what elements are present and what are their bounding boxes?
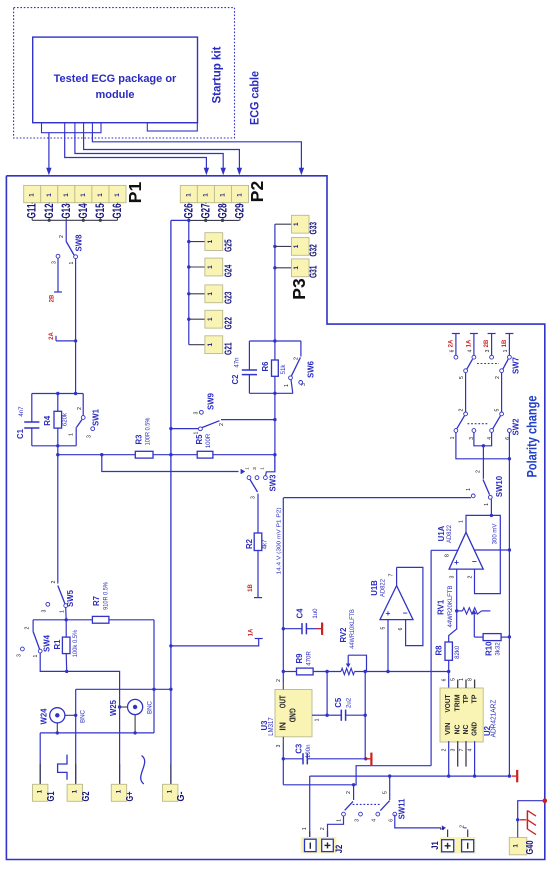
svg-text:3: 3 bbox=[42, 609, 48, 612]
svg-text:G2: G2 bbox=[81, 791, 92, 801]
svg-text:G11: G11 bbox=[25, 203, 39, 218]
wire U2 pin2 VIN bbox=[448, 741, 450, 776]
pin label G28 bbox=[222, 203, 224, 221]
wire U1B output pin7 bbox=[396, 567, 398, 585]
svg-text:82k0: 82k0 bbox=[454, 645, 461, 659]
wire row R7 bbox=[33, 619, 92, 621]
resistor R8 bbox=[449, 611, 457, 642]
pin label G15 bbox=[99, 203, 101, 221]
connector P1 bbox=[24, 185, 41, 202]
svg-text:R5: R5 bbox=[195, 434, 204, 445]
svg-text:300 mV: 300 mV bbox=[493, 524, 499, 545]
ground C4 bbox=[317, 628, 322, 630]
wire rail 671 bbox=[283, 671, 296, 673]
svg-text:4: 4 bbox=[468, 349, 474, 352]
svg-text:SW8: SW8 bbox=[75, 234, 84, 252]
svg-text:R1: R1 bbox=[53, 639, 62, 650]
svg-text:3: 3 bbox=[252, 467, 258, 470]
wire G26 column bbox=[188, 220, 190, 344]
wire rail to R8 bbox=[365, 671, 449, 673]
wire U2 pin4 GND bbox=[474, 741, 476, 776]
svg-text:3: 3 bbox=[251, 496, 257, 499]
svg-text:2A: 2A bbox=[448, 339, 454, 347]
wire J2 pin1 bbox=[309, 776, 311, 839]
svg-text:2: 2 bbox=[276, 679, 282, 682]
svg-text:G23: G23 bbox=[223, 291, 235, 304]
svg-text:1: 1 bbox=[219, 193, 226, 197]
svg-text:1: 1 bbox=[60, 610, 66, 613]
svg-text:3: 3 bbox=[355, 819, 361, 822]
svg-text:2A: 2A bbox=[49, 331, 55, 339]
node bus bottom bbox=[32, 445, 76, 447]
svg-text:6: 6 bbox=[442, 678, 448, 681]
svg-text:100R 0.5%: 100R 0.5% bbox=[145, 417, 152, 445]
svg-text:1: 1 bbox=[293, 244, 300, 248]
startup kit dashed box bbox=[14, 8, 235, 138]
svg-text:1: 1 bbox=[33, 654, 39, 657]
svg-text:1: 1 bbox=[245, 467, 251, 470]
node bus top bbox=[32, 393, 83, 395]
svg-text:5: 5 bbox=[495, 408, 501, 411]
svg-text:3: 3 bbox=[451, 748, 457, 751]
svg-text:1: 1 bbox=[293, 222, 300, 226]
connector G25 bbox=[187, 240, 190, 243]
wire U2 pin3 bbox=[457, 741, 459, 767]
bus wire P2 to G- bbox=[170, 220, 172, 784]
svg-text:R3: R3 bbox=[135, 434, 144, 445]
svg-text:2: 2 bbox=[460, 825, 466, 828]
svg-text:Polarity change: Polarity change bbox=[525, 395, 540, 477]
svg-text:1: 1 bbox=[440, 827, 446, 830]
svg-text:2B: 2B bbox=[50, 294, 56, 302]
pin label G29 bbox=[239, 203, 241, 221]
svg-text:GND: GND bbox=[470, 721, 479, 735]
wire rail x365 bbox=[364, 672, 366, 759]
wire SW8-1 down bbox=[75, 259, 77, 394]
svg-text:ECG cable: ECG cable bbox=[250, 71, 262, 125]
wire supply rail x431 bbox=[430, 550, 432, 765]
svg-text:14.4 V (300 mV P1 P2): 14.4 V (300 mV P1 P2) bbox=[277, 507, 283, 574]
pin label G13 bbox=[65, 203, 67, 221]
svg-text:3: 3 bbox=[485, 349, 491, 352]
svg-text:R7: R7 bbox=[92, 596, 101, 606]
wire U1A right supply bbox=[474, 549, 509, 551]
svg-text:ADR421ARZ: ADR421ARZ bbox=[491, 699, 498, 737]
svg-text:LM317: LM317 bbox=[268, 717, 275, 736]
svg-text:3: 3 bbox=[450, 575, 456, 578]
svg-text:W25: W25 bbox=[109, 699, 118, 716]
svg-text:3: 3 bbox=[194, 411, 200, 414]
svg-text:1: 1 bbox=[116, 789, 123, 793]
svg-text:G15: G15 bbox=[93, 203, 107, 218]
svg-text:1: 1 bbox=[260, 467, 266, 470]
svg-text:44WR10KLFTB: 44WR10KLFTB bbox=[349, 609, 356, 649]
svg-text:2: 2 bbox=[77, 407, 83, 410]
svg-text:G33: G33 bbox=[308, 222, 320, 235]
net 1A wire bbox=[171, 639, 259, 646]
svg-text:R2: R2 bbox=[245, 538, 254, 549]
svg-text:module: module bbox=[95, 89, 134, 101]
capacitor C1 bbox=[31, 394, 33, 423]
svg-text:BNC: BNC bbox=[147, 700, 154, 714]
svg-text:SW11: SW11 bbox=[398, 798, 407, 819]
connector G23 bbox=[187, 292, 190, 295]
wire U1B pin5 bbox=[387, 620, 389, 672]
wire rail 785 to SW11 bbox=[283, 766, 431, 785]
svg-text:1: 1 bbox=[337, 819, 343, 822]
svg-text:1: 1 bbox=[185, 193, 192, 197]
svg-text:3: 3 bbox=[87, 435, 93, 438]
pin label G26 bbox=[188, 203, 190, 221]
svg-text:3: 3 bbox=[301, 383, 307, 386]
BNC W25 bbox=[128, 699, 143, 714]
svg-text:100n: 100n bbox=[305, 745, 312, 759]
svg-text:Startup kit: Startup kit bbox=[212, 46, 224, 103]
svg-text:1: 1 bbox=[236, 193, 243, 197]
svg-text:1u0: 1u0 bbox=[312, 608, 319, 619]
svg-text:3k32: 3k32 bbox=[495, 642, 502, 656]
module connector stub right bbox=[147, 123, 197, 131]
svg-text:SW6: SW6 bbox=[307, 360, 316, 378]
svg-text:1A: 1A bbox=[466, 339, 472, 347]
svg-text:+: + bbox=[386, 608, 391, 618]
connector J2 bbox=[301, 837, 337, 854]
svg-text:1: 1 bbox=[302, 827, 308, 830]
svg-text:Tested ECG package or: Tested ECG package or bbox=[54, 73, 177, 85]
svg-text:SW1: SW1 bbox=[92, 408, 101, 426]
svg-text:G40: G40 bbox=[525, 840, 536, 854]
svg-text:RV2: RV2 bbox=[339, 627, 348, 643]
svg-text:5: 5 bbox=[383, 791, 389, 794]
svg-text:G28: G28 bbox=[215, 203, 229, 218]
svg-text:4: 4 bbox=[372, 819, 378, 822]
sine wave symbol bbox=[141, 756, 145, 785]
svg-text:G21: G21 bbox=[223, 342, 235, 355]
svg-text:8: 8 bbox=[445, 554, 451, 557]
switch SW2 bbox=[464, 412, 468, 416]
svg-text:TP: TP bbox=[470, 695, 479, 704]
svg-text:3: 3 bbox=[52, 261, 58, 264]
svg-text:2B: 2B bbox=[484, 339, 490, 347]
svg-text:G13: G13 bbox=[59, 203, 73, 218]
resistor R9 bbox=[297, 668, 314, 675]
svg-text:−: − bbox=[472, 557, 477, 567]
svg-text:7: 7 bbox=[389, 573, 395, 576]
wire R6 down bbox=[274, 393, 276, 472]
svg-text:44WR20KLFTB: 44WR20KLFTB bbox=[447, 586, 454, 628]
resistor R2 bbox=[257, 494, 259, 533]
wire row 455 bbox=[58, 454, 136, 456]
svg-text:6: 6 bbox=[450, 349, 456, 352]
capacitor C4 bbox=[283, 628, 302, 630]
wire J1 pin2 stub bbox=[467, 830, 469, 840]
svg-text:U1A: U1A bbox=[437, 525, 446, 541]
svg-text:3: 3 bbox=[17, 654, 23, 657]
resistor R4 bbox=[57, 394, 59, 412]
svg-text:1: 1 bbox=[63, 193, 70, 197]
svg-text:R10: R10 bbox=[485, 641, 494, 656]
wire P3 column bbox=[274, 224, 276, 341]
wire U1A feedback bbox=[475, 515, 501, 593]
svg-text:U1B: U1B bbox=[370, 580, 379, 596]
svg-text:VOUT: VOUT bbox=[443, 694, 452, 712]
svg-text:SW5: SW5 bbox=[66, 589, 75, 607]
svg-text:OUT: OUT bbox=[279, 695, 288, 708]
svg-text:C5: C5 bbox=[334, 697, 343, 708]
connector G32 bbox=[275, 245, 292, 247]
P1 bus wire bbox=[32, 219, 117, 221]
svg-text:SW4: SW4 bbox=[43, 634, 52, 652]
pin label G16 bbox=[116, 203, 118, 221]
wire SW10 to U1A out bbox=[490, 499, 492, 515]
wire BNC row bbox=[76, 688, 171, 690]
svg-text:R6: R6 bbox=[261, 361, 270, 372]
resistor R1 bbox=[65, 620, 67, 637]
svg-text:2: 2 bbox=[459, 408, 465, 411]
terminal G1 bbox=[39, 764, 41, 785]
wire cable to P2-G27 bbox=[65, 133, 207, 168]
pin label G14 bbox=[82, 203, 84, 221]
terminal G+ bbox=[119, 764, 121, 785]
potentiometer RV1 bbox=[457, 610, 463, 612]
svg-text:GND: GND bbox=[288, 708, 297, 722]
wire SW7 to SW2 bbox=[465, 373, 467, 412]
svg-text:−: − bbox=[403, 608, 408, 618]
svg-text:IN: IN bbox=[279, 722, 288, 731]
svg-text:1: 1 bbox=[71, 789, 78, 793]
svg-text:4n7: 4n7 bbox=[18, 406, 25, 417]
svg-text:G29: G29 bbox=[232, 203, 246, 218]
svg-text:1: 1 bbox=[459, 520, 465, 523]
svg-text:2: 2 bbox=[476, 470, 482, 473]
resistor R6 bbox=[274, 341, 276, 360]
svg-text:1: 1 bbox=[202, 193, 209, 197]
svg-text:R8: R8 bbox=[435, 645, 444, 656]
wire SW2-6 bus down bbox=[508, 433, 510, 777]
svg-text:1: 1 bbox=[46, 193, 53, 197]
node rail bottom bbox=[249, 392, 293, 394]
svg-text:8: 8 bbox=[468, 678, 474, 681]
pin label G12 bbox=[48, 203, 50, 221]
svg-text:1: 1 bbox=[315, 718, 321, 721]
P2 bus wire bbox=[189, 219, 240, 221]
svg-text:SW3: SW3 bbox=[269, 474, 278, 492]
op-amp U1A bbox=[449, 532, 483, 569]
svg-text:G25: G25 bbox=[223, 239, 235, 252]
wire U3 out rail bbox=[282, 498, 284, 682]
svg-text:1: 1 bbox=[284, 384, 290, 387]
svg-text:7: 7 bbox=[459, 748, 465, 751]
wire R8 to U2 pin6 bbox=[448, 672, 450, 689]
svg-text:5: 5 bbox=[381, 626, 387, 629]
wire U3 pin3 bbox=[282, 737, 284, 744]
svg-text:1: 1 bbox=[484, 503, 490, 506]
chassis ground symbol bbox=[520, 819, 527, 821]
ground rail bbox=[512, 775, 517, 777]
switch SW3 bbox=[247, 476, 251, 480]
svg-text:P3: P3 bbox=[289, 278, 309, 300]
wire U1A pin8 bbox=[431, 549, 458, 551]
svg-text:2: 2 bbox=[320, 827, 326, 830]
capacitor C5 bbox=[327, 714, 341, 716]
pin label G11 bbox=[31, 203, 33, 221]
connector G31 bbox=[275, 267, 292, 269]
wire G13 to SW8 bbox=[65, 220, 67, 241]
wire SW11 to J1 pin1 bbox=[395, 815, 441, 828]
svg-text:G31: G31 bbox=[308, 265, 320, 278]
svg-text:6: 6 bbox=[398, 627, 404, 630]
wire U1A pin3 bbox=[456, 569, 458, 611]
switch SW11 bbox=[353, 785, 355, 800]
connector G33 bbox=[275, 223, 292, 225]
wire cable to P2-G29 bbox=[84, 133, 240, 168]
wire U2 pin7 bbox=[465, 741, 467, 767]
svg-text:1: 1 bbox=[513, 844, 520, 848]
terminal G- bbox=[170, 764, 172, 785]
svg-text:G12: G12 bbox=[42, 203, 56, 218]
svg-text:5: 5 bbox=[451, 678, 457, 681]
svg-text:910R 0.5%: 910R 0.5% bbox=[102, 582, 109, 610]
svg-text:2: 2 bbox=[59, 235, 65, 238]
resistor R7 bbox=[92, 616, 109, 623]
svg-text:2: 2 bbox=[495, 376, 501, 379]
wire U3 gnd pin bbox=[312, 714, 327, 716]
switch SW9 bbox=[171, 428, 199, 430]
wire SW2-1 to bus bbox=[456, 433, 510, 459]
svg-text:G27: G27 bbox=[198, 203, 212, 218]
svg-text:1: 1 bbox=[37, 789, 44, 793]
connector G21 bbox=[189, 344, 205, 346]
svg-text:6: 6 bbox=[505, 437, 511, 440]
svg-text:1: 1 bbox=[459, 678, 465, 681]
capacitor C3 bbox=[282, 757, 285, 760]
svg-text:J1: J1 bbox=[430, 841, 441, 850]
svg-text:470R: 470R bbox=[306, 651, 313, 666]
svg-text:5: 5 bbox=[459, 376, 465, 379]
svg-text:1: 1 bbox=[466, 488, 472, 491]
node rail top bbox=[249, 340, 301, 342]
wire to W25 rail bbox=[153, 620, 155, 733]
svg-text:G-: G- bbox=[176, 792, 187, 802]
svg-text:1: 1 bbox=[69, 433, 75, 436]
svg-text:1: 1 bbox=[207, 317, 214, 321]
svg-text:1: 1 bbox=[97, 193, 104, 197]
svg-text:100k 0.5%: 100k 0.5% bbox=[72, 629, 79, 657]
wire SW11 to J2 pin2 bbox=[328, 816, 344, 839]
square wave symbol bbox=[58, 755, 67, 780]
net labels 2A 1A 2B 1B bbox=[452, 333, 460, 335]
svg-text:+: + bbox=[454, 557, 459, 567]
tested ECG module box bbox=[33, 37, 198, 123]
svg-text:1: 1 bbox=[207, 292, 214, 296]
wire SW8-3 to net 2B bbox=[57, 258, 59, 292]
reference U2 ADR421ARZ bbox=[440, 688, 483, 742]
pin label G27 bbox=[205, 203, 207, 221]
switch SW4 bbox=[32, 620, 34, 632]
svg-text:2: 2 bbox=[51, 580, 57, 583]
wire bottom row bbox=[40, 732, 154, 734]
wire G40 pin bbox=[517, 822, 519, 838]
svg-text:BNC: BNC bbox=[80, 709, 87, 723]
svg-text:SW9: SW9 bbox=[207, 392, 216, 410]
svg-text:4k7: 4k7 bbox=[262, 539, 269, 549]
terminal G40 bbox=[509, 837, 527, 854]
schematic frame border bbox=[6, 176, 544, 860]
node frame ground bbox=[543, 798, 548, 803]
svg-text:620k: 620k bbox=[62, 412, 69, 426]
svg-text:1: 1 bbox=[450, 436, 456, 439]
resistor R10 bbox=[474, 636, 483, 638]
svg-text:1: 1 bbox=[194, 431, 200, 434]
regulator U3 LM317 bbox=[275, 690, 312, 737]
svg-text:6: 6 bbox=[389, 819, 395, 822]
svg-text:AD822: AD822 bbox=[380, 579, 387, 597]
svg-text:1: 1 bbox=[114, 193, 121, 197]
ground C3 bbox=[366, 758, 371, 760]
svg-text:G1: G1 bbox=[46, 791, 57, 801]
module connector stub left bbox=[42, 123, 102, 133]
wire gnd rail x327 bbox=[326, 672, 328, 716]
terminal G2 bbox=[75, 764, 77, 785]
svg-text:G32: G32 bbox=[308, 244, 320, 257]
svg-text:1: 1 bbox=[293, 266, 300, 270]
svg-text:SW2: SW2 bbox=[512, 418, 521, 436]
switch SW5 bbox=[57, 455, 59, 584]
svg-text:C2: C2 bbox=[231, 374, 240, 385]
svg-text:51k: 51k bbox=[280, 364, 287, 375]
wire to SW3 bbox=[102, 455, 239, 472]
resistor R5 bbox=[197, 451, 213, 458]
svg-text:47n: 47n bbox=[234, 357, 241, 367]
svg-text:1: 1 bbox=[207, 239, 214, 243]
svg-text:G+: G+ bbox=[125, 791, 136, 801]
svg-text:P2: P2 bbox=[247, 181, 267, 203]
svg-text:G24: G24 bbox=[223, 265, 235, 278]
svg-text:G26: G26 bbox=[181, 203, 195, 218]
svg-text:R4: R4 bbox=[43, 415, 52, 426]
wire U1A output bbox=[466, 515, 491, 532]
svg-text:W24: W24 bbox=[40, 708, 49, 725]
potentiometer RV2 bbox=[341, 668, 355, 674]
svg-text:2: 2 bbox=[25, 626, 31, 629]
connector G24 bbox=[187, 265, 190, 268]
svg-text:VIN: VIN bbox=[443, 722, 452, 735]
svg-text:C4: C4 bbox=[295, 608, 304, 619]
connector G22 bbox=[187, 318, 190, 321]
svg-text:3: 3 bbox=[276, 744, 282, 747]
connector J1 bbox=[440, 837, 476, 854]
svg-text:4: 4 bbox=[468, 748, 474, 751]
svg-text:C3: C3 bbox=[295, 743, 304, 754]
svg-text:2: 2 bbox=[468, 575, 474, 578]
svg-text:G22: G22 bbox=[223, 317, 235, 330]
svg-text:J2: J2 bbox=[334, 845, 345, 854]
svg-text:AD822: AD822 bbox=[446, 525, 453, 543]
switch SW7 bbox=[454, 355, 458, 359]
wire SW2 3-4 link bbox=[474, 433, 492, 446]
op-amp U1B bbox=[380, 586, 413, 620]
svg-text:1: 1 bbox=[80, 193, 87, 197]
switch SW6 bbox=[300, 341, 302, 357]
connector P2 bbox=[180, 185, 197, 202]
switch SW1 bbox=[82, 394, 84, 416]
wire rail 776 bbox=[310, 775, 510, 777]
wire cable to P1-G12 bbox=[48, 133, 50, 168]
wire to G+ bbox=[67, 671, 120, 784]
svg-text:1: 1 bbox=[69, 261, 75, 264]
svg-text:SW10: SW10 bbox=[495, 475, 504, 497]
BNC W24 bbox=[50, 708, 65, 723]
